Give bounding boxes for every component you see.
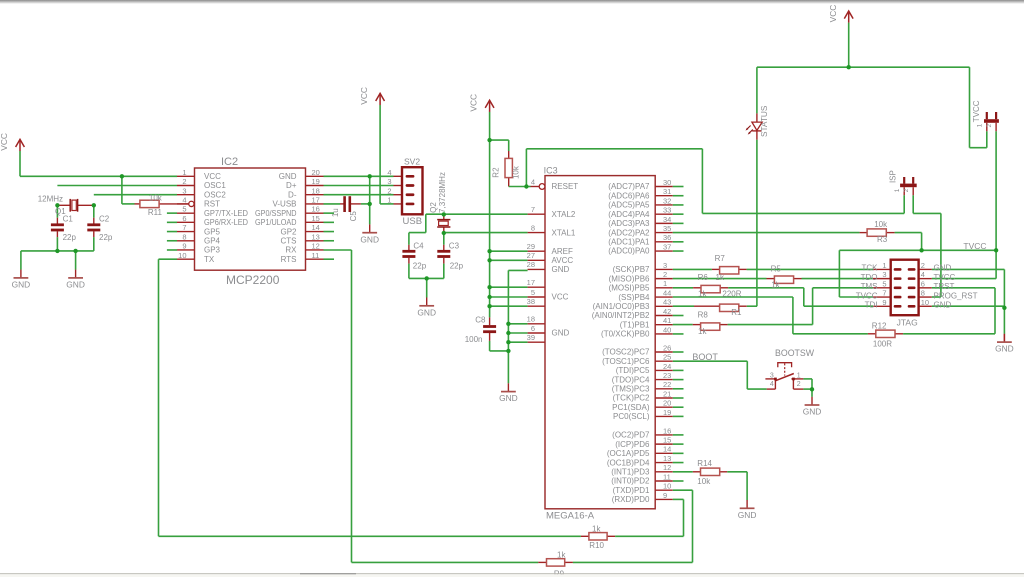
svg-text:6: 6: [921, 279, 925, 288]
svg-text:(ADC5)PA5: (ADC5)PA5: [608, 201, 650, 210]
svg-text:10: 10: [921, 298, 929, 307]
svg-text:4: 4: [531, 177, 535, 186]
svg-text:33: 33: [663, 206, 671, 215]
svg-text:22p: 22p: [63, 233, 77, 242]
svg-text:(TDO)PC4: (TDO)PC4: [612, 375, 650, 384]
svg-text:220R: 220R: [722, 289, 741, 298]
svg-text:AREF: AREF: [552, 247, 573, 256]
svg-text:20: 20: [663, 399, 671, 408]
svg-text:(OC1A)PD5: (OC1A)PD5: [607, 449, 650, 458]
svg-text:6: 6: [531, 324, 535, 333]
svg-text:GP1/ULOAD: GP1/ULOAD: [255, 218, 297, 227]
svg-text:(T0/XCK)PB0: (T0/XCK)PB0: [601, 330, 650, 339]
svg-text:(ADC2)PA2: (ADC2)PA2: [608, 228, 650, 237]
svg-text:C8: C8: [475, 315, 486, 324]
svg-text:8: 8: [921, 289, 925, 298]
svg-text:CTS: CTS: [281, 236, 297, 245]
svg-text:9: 9: [882, 298, 886, 307]
svg-text:R6: R6: [698, 273, 709, 282]
svg-text:C2: C2: [99, 214, 110, 223]
svg-text:(MISO)PB6: (MISO)PB6: [609, 274, 650, 283]
svg-text:GND: GND: [738, 510, 757, 520]
svg-text:1: 1: [387, 196, 391, 205]
svg-text:TDI: TDI: [865, 301, 878, 310]
svg-text:(OC1B)PD4: (OC1B)PD4: [607, 458, 650, 467]
svg-text:5: 5: [182, 205, 186, 214]
svg-text:4: 4: [770, 381, 774, 388]
svg-text:18: 18: [527, 315, 535, 324]
svg-text:(TXD)PD1: (TXD)PD1: [613, 486, 650, 495]
svg-text:TX: TX: [204, 255, 215, 264]
svg-text:(TOSC2)PC7: (TOSC2)PC7: [602, 348, 650, 357]
svg-text:22p: 22p: [99, 233, 113, 242]
svg-text:18: 18: [312, 186, 320, 195]
svg-text:2: 2: [921, 261, 925, 270]
svg-text:1k: 1k: [771, 281, 780, 290]
svg-text:TVCC: TVCC: [856, 291, 878, 300]
svg-text:(ADC4)PA4: (ADC4)PA4: [608, 210, 650, 219]
svg-text:1: 1: [797, 372, 801, 379]
svg-text:PROG_RST: PROG_RST: [934, 291, 978, 300]
svg-text:GND: GND: [360, 234, 379, 244]
svg-text:11: 11: [312, 251, 320, 260]
svg-text:R8: R8: [698, 311, 709, 320]
svg-text:RTS: RTS: [281, 255, 297, 264]
svg-text:13: 13: [663, 454, 671, 463]
svg-text:PC1(SDA): PC1(SDA): [612, 403, 650, 412]
svg-text:5: 5: [882, 279, 886, 288]
svg-text:VCC: VCC: [469, 94, 479, 112]
svg-text:C5: C5: [349, 211, 358, 222]
svg-text:8: 8: [531, 223, 535, 232]
svg-text:32: 32: [663, 196, 671, 205]
svg-text:(ADC0)PA0: (ADC0)PA0: [608, 247, 650, 256]
svg-text:10k: 10k: [511, 165, 520, 179]
svg-text:GP4: GP4: [204, 236, 221, 245]
svg-text:1: 1: [663, 279, 667, 288]
svg-text:3: 3: [770, 372, 774, 379]
svg-text:USB: USB: [403, 216, 423, 227]
svg-text:(RXD)PD0: (RXD)PD0: [612, 495, 650, 504]
svg-text:(TDI)PC5: (TDI)PC5: [616, 366, 650, 375]
svg-text:TVCC: TVCC: [972, 100, 981, 122]
svg-text:16: 16: [663, 426, 671, 435]
svg-text:GP3: GP3: [204, 246, 221, 255]
svg-text:23: 23: [663, 371, 671, 380]
svg-text:(AIN1/OC0)PB3: (AIN1/OC0)PB3: [593, 302, 650, 311]
svg-text:R11: R11: [148, 208, 163, 217]
svg-text:3: 3: [882, 270, 886, 279]
svg-text:14: 14: [312, 223, 320, 232]
svg-text:35: 35: [663, 224, 671, 233]
svg-text:2: 2: [387, 186, 391, 195]
svg-text:(TMS)PC3: (TMS)PC3: [612, 385, 650, 394]
svg-text:7: 7: [531, 205, 535, 214]
svg-text:100n: 100n: [465, 335, 483, 344]
svg-text:20: 20: [312, 168, 320, 177]
svg-text:Q2: Q2: [429, 202, 438, 213]
svg-text:(INT0)PD2: (INT0)PD2: [611, 477, 650, 486]
svg-text:9: 9: [182, 242, 186, 251]
svg-text:15: 15: [663, 436, 671, 445]
svg-text:1k: 1k: [698, 289, 707, 298]
svg-text:19: 19: [663, 408, 671, 417]
svg-text:1k: 1k: [592, 524, 601, 533]
svg-text:V-USB: V-USB: [272, 200, 296, 209]
svg-text:38: 38: [527, 297, 535, 306]
svg-text:STATUS: STATUS: [759, 105, 769, 137]
svg-text:(SS)PB4: (SS)PB4: [618, 293, 650, 302]
svg-text:XTAL1: XTAL1: [552, 228, 576, 237]
svg-text:(ADC6)PA6: (ADC6)PA6: [608, 191, 650, 200]
svg-text:GP2: GP2: [280, 227, 297, 236]
svg-text:4: 4: [921, 270, 925, 279]
svg-text:17: 17: [312, 196, 320, 205]
svg-text:40: 40: [663, 325, 671, 334]
svg-text:2: 2: [903, 188, 910, 192]
svg-text:VCC: VCC: [359, 87, 369, 105]
svg-text:GND: GND: [417, 307, 436, 317]
svg-text:39: 39: [527, 333, 535, 342]
svg-text:100R: 100R: [873, 340, 892, 349]
svg-text:(OC2)PD7: (OC2)PD7: [612, 431, 650, 440]
svg-text:GND: GND: [803, 407, 822, 417]
svg-text:JTAG: JTAG: [897, 317, 918, 327]
svg-text:C1: C1: [63, 214, 74, 223]
svg-text:GP5: GP5: [204, 227, 221, 236]
svg-text:MCP2200: MCP2200: [226, 273, 280, 287]
svg-text:4: 4: [182, 196, 186, 205]
svg-text:1: 1: [882, 261, 886, 270]
svg-text:RX: RX: [285, 246, 297, 255]
svg-text:1: 1: [894, 188, 901, 192]
svg-text:12MHz: 12MHz: [38, 195, 63, 204]
svg-text:GND: GND: [552, 329, 570, 338]
svg-text:GND: GND: [995, 344, 1014, 354]
svg-text:42: 42: [663, 307, 671, 316]
svg-text:1u: 1u: [331, 208, 340, 217]
svg-text:ISP: ISP: [888, 170, 897, 183]
svg-text:R5: R5: [771, 264, 782, 273]
svg-text:TRST: TRST: [934, 282, 955, 291]
svg-text:VCC: VCC: [0, 133, 9, 151]
svg-text:(MOSI)PB5: (MOSI)PB5: [609, 284, 650, 293]
svg-text:(SCK)PB7: (SCK)PB7: [613, 265, 650, 274]
svg-text:12: 12: [312, 242, 320, 251]
svg-text:R2: R2: [491, 167, 500, 178]
svg-text:TMS: TMS: [861, 282, 878, 291]
svg-text:GND: GND: [279, 172, 297, 181]
svg-text:4: 4: [387, 168, 391, 177]
svg-text:TCK: TCK: [862, 264, 879, 273]
svg-text:6: 6: [182, 214, 186, 223]
svg-text:GND: GND: [552, 265, 570, 274]
svg-text:(ADC7)PA7: (ADC7)PA7: [608, 182, 650, 191]
svg-text:12: 12: [663, 463, 671, 472]
svg-text:R3: R3: [877, 235, 888, 244]
svg-text:VCC: VCC: [204, 172, 221, 181]
svg-text:17: 17: [527, 278, 535, 287]
svg-text:31: 31: [663, 187, 671, 196]
svg-text:VCC: VCC: [828, 5, 838, 23]
svg-text:XTAL2: XTAL2: [552, 210, 576, 219]
svg-text:44: 44: [663, 288, 671, 297]
svg-text:10k: 10k: [149, 193, 163, 202]
svg-text:7: 7: [882, 289, 886, 298]
svg-text:1k: 1k: [716, 273, 725, 282]
svg-text:7: 7: [182, 223, 186, 232]
svg-text:14: 14: [663, 445, 671, 454]
svg-text:TVCC: TVCC: [934, 273, 956, 282]
svg-text:28: 28: [527, 260, 535, 269]
svg-text:2: 2: [986, 124, 993, 128]
svg-text:16: 16: [312, 205, 320, 214]
svg-text:10: 10: [663, 482, 671, 491]
svg-text:19: 19: [312, 177, 320, 186]
svg-text:10k: 10k: [874, 220, 888, 229]
svg-text:GP0/SSPND: GP0/SSPND: [255, 209, 297, 218]
svg-text:BOOTSW: BOOTSW: [775, 348, 815, 358]
svg-text:22p: 22p: [450, 262, 464, 271]
svg-text:24: 24: [663, 362, 671, 371]
svg-text:IC3: IC3: [544, 165, 558, 175]
svg-text:(AIN0/INT2)PB2: (AIN0/INT2)PB2: [592, 311, 650, 320]
svg-text:2: 2: [663, 270, 667, 279]
svg-text:2: 2: [797, 381, 801, 388]
svg-text:VCC: VCC: [552, 293, 569, 302]
svg-text:C3: C3: [449, 241, 460, 250]
svg-text:34: 34: [663, 215, 671, 224]
svg-text:GND: GND: [934, 264, 952, 273]
svg-text:1: 1: [977, 123, 984, 127]
svg-text:22: 22: [663, 380, 671, 389]
svg-text:RST: RST: [204, 200, 220, 209]
svg-text:29: 29: [527, 242, 535, 251]
svg-text:(ICP)PD6: (ICP)PD6: [615, 440, 650, 449]
svg-text:SV2: SV2: [404, 156, 420, 166]
svg-text:36: 36: [663, 233, 671, 242]
svg-text:MEGA16-A: MEGA16-A: [546, 511, 595, 522]
svg-text:30: 30: [663, 178, 671, 187]
svg-text:1k: 1k: [557, 551, 566, 560]
svg-text:(TOSC1)PC6: (TOSC1)PC6: [602, 357, 650, 366]
svg-text:GND: GND: [934, 301, 952, 310]
svg-text:TDO: TDO: [861, 273, 878, 282]
svg-text:GP6/RX-LED: GP6/RX-LED: [204, 218, 248, 227]
svg-text:R7: R7: [715, 254, 726, 263]
svg-text:5: 5: [531, 288, 535, 297]
svg-text:PC0(SCL): PC0(SCL): [613, 412, 650, 421]
svg-text:10k: 10k: [697, 477, 711, 486]
svg-text:26: 26: [663, 343, 671, 352]
svg-text:TVCC: TVCC: [963, 241, 986, 251]
svg-text:8: 8: [182, 232, 186, 241]
svg-text:OSC1: OSC1: [204, 181, 226, 190]
svg-text:AVCC: AVCC: [552, 256, 574, 265]
svg-text:GP7/TX-LED: GP7/TX-LED: [204, 209, 248, 218]
svg-text:OSC2: OSC2: [204, 190, 226, 199]
svg-text:15: 15: [312, 214, 320, 223]
svg-text:D-: D-: [288, 190, 297, 199]
svg-text:3: 3: [182, 186, 186, 195]
svg-text:10: 10: [178, 251, 186, 260]
svg-text:25: 25: [663, 353, 671, 362]
svg-text:R12: R12: [872, 322, 887, 331]
svg-text:GND: GND: [12, 280, 31, 290]
svg-text:27: 27: [527, 251, 535, 260]
svg-text:R14: R14: [697, 459, 712, 468]
svg-text:7,3728MHz: 7,3728MHz: [438, 172, 447, 213]
svg-text:2: 2: [182, 177, 186, 186]
svg-text:(INT1)PD3: (INT1)PD3: [611, 467, 650, 476]
svg-text:22p: 22p: [413, 262, 427, 271]
svg-text:41: 41: [663, 316, 671, 325]
svg-text:9: 9: [663, 491, 667, 500]
svg-text:R10: R10: [589, 541, 604, 550]
svg-text:(ADC3)PA3: (ADC3)PA3: [608, 219, 650, 228]
svg-text:(TCK)PC2: (TCK)PC2: [613, 394, 650, 403]
svg-text:IC2: IC2: [221, 156, 238, 168]
svg-text:37: 37: [663, 242, 671, 251]
svg-text:21: 21: [663, 389, 671, 398]
svg-text:3: 3: [663, 261, 667, 270]
svg-text:1: 1: [182, 168, 186, 177]
svg-text:GND: GND: [66, 280, 85, 290]
svg-text:13: 13: [312, 232, 320, 241]
svg-text:C4: C4: [413, 241, 424, 250]
svg-text:BOOT: BOOT: [692, 352, 718, 362]
svg-text:(ADC1)PA1: (ADC1)PA1: [608, 238, 650, 247]
svg-text:11: 11: [663, 472, 671, 481]
svg-text:1k: 1k: [698, 327, 707, 336]
svg-text:GND: GND: [499, 393, 518, 403]
svg-text:(T1)PB1: (T1)PB1: [620, 320, 650, 329]
svg-text:43: 43: [663, 298, 671, 307]
svg-text:RESET: RESET: [552, 182, 579, 191]
svg-text:R1: R1: [731, 308, 742, 317]
svg-text:3: 3: [387, 177, 391, 186]
svg-text:D+: D+: [286, 181, 297, 190]
